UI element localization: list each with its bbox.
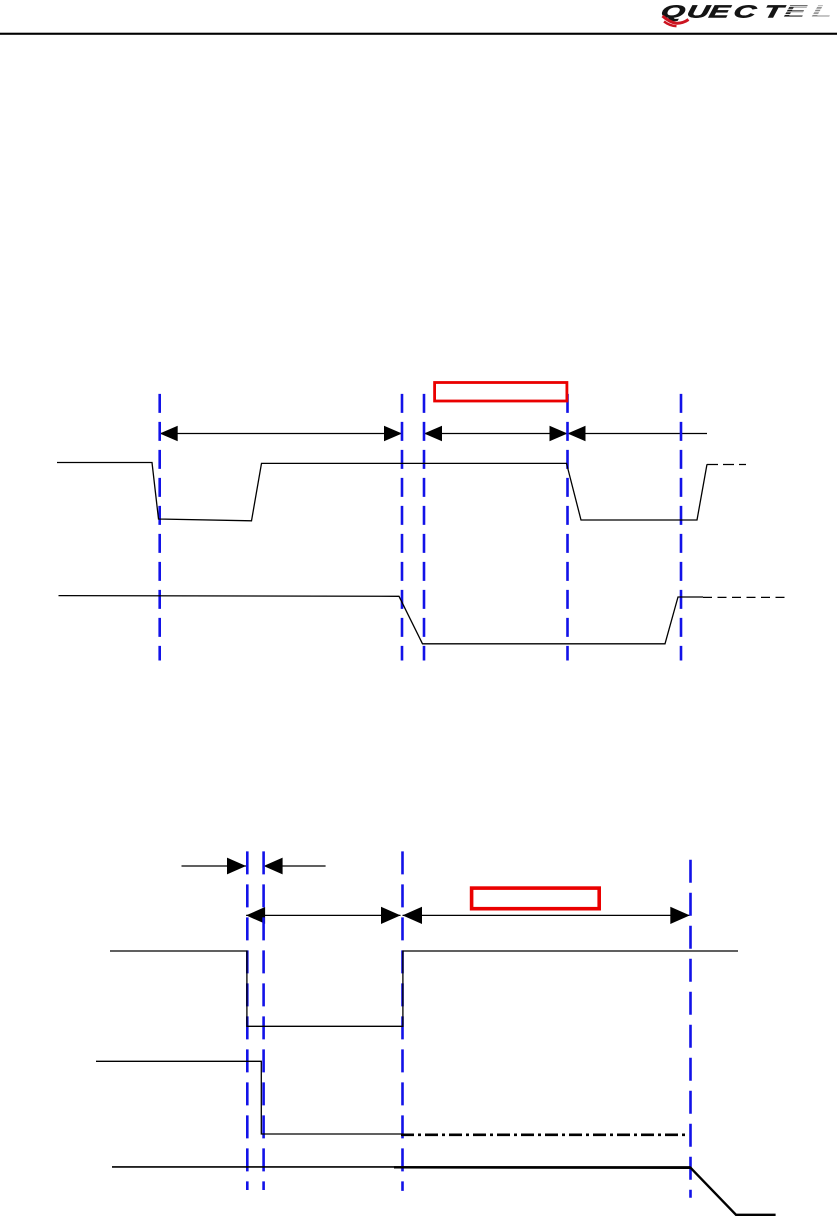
svg-text:QUECT: QUECT <box>659 2 788 22</box>
svg-text:L: L <box>810 2 835 22</box>
svg-text:E: E <box>782 2 809 22</box>
